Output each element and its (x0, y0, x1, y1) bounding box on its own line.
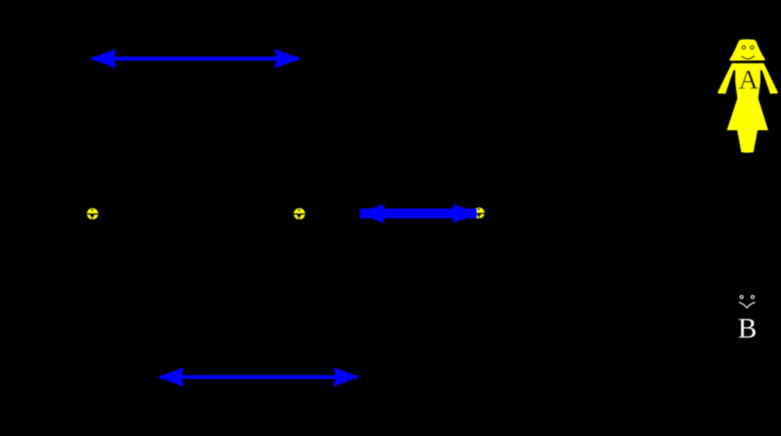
left eye (740, 296, 743, 299)
right eye (751, 296, 754, 299)
light pulse 2 (mini figure middle) (293, 208, 306, 219)
head with hair (729, 39, 765, 61)
light pulse 1 (mini figure at left) (86, 208, 99, 219)
left eye (742, 46, 745, 49)
bottom double arrow (158, 367, 360, 386)
observer B face (739, 296, 755, 308)
letter A on chest (739, 71, 758, 89)
light pulse 3 (mini figure under arrow tip) (473, 208, 485, 219)
smile (739, 302, 755, 308)
label B (739, 319, 756, 338)
observer A figure (yellow woman) (718, 39, 778, 153)
smile (741, 56, 754, 59)
top double arrow (90, 49, 300, 69)
middle double arrow (thick) (358, 204, 478, 224)
body: shoulders, arms, torso, skirt, legs (718, 63, 778, 153)
right eye (750, 46, 753, 49)
